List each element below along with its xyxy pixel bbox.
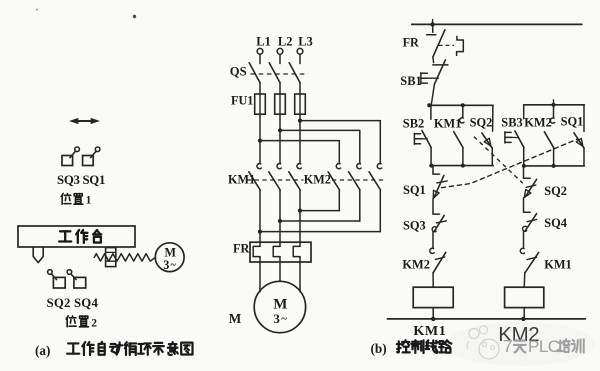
svg-text:KM2: KM2 [304, 173, 331, 187]
junction node right bus / SB3 [522, 164, 526, 168]
label SQ4 [544, 216, 567, 230]
FR trip linkage dashed line [439, 44, 454, 46]
wire KM1 pole 3 down to FR [299, 190, 301, 246]
wire fuse FU1-2 element [279, 94, 281, 114]
svg-text:SQ2: SQ2 [470, 115, 493, 129]
svg-text:FR: FR [403, 35, 419, 49]
watermark panda logo [467, 326, 499, 359]
wire KM2 pole 3 crossover to phase L1 [260, 190, 380, 232]
limit switch SQ4 (position 2) [67, 270, 86, 288]
KM1 main contacts coupling dashed line [247, 179, 304, 181]
disconnect switch QS pole 3 blade [289, 63, 300, 83]
wire L1 terminal to QS [259, 54, 261, 63]
wire L2 terminal to QS [279, 54, 281, 63]
label KM1 (interlock) [544, 258, 572, 272]
label SQ3 SQ1 [57, 173, 105, 187]
worktable box (CJK 工作台) [18, 226, 135, 247]
svg-text:KM1: KM1 [544, 258, 572, 272]
wire L3 terminal to QS [299, 54, 301, 63]
svg-text:KM1: KM1 [434, 116, 462, 130]
junction node bus / SB2 [427, 103, 431, 107]
svg-text:SQ3 SQ1: SQ3 SQ1 [57, 173, 105, 187]
wire bottom bus to SQ1 NC [432, 166, 434, 174]
scan mottle halo [445, 322, 595, 366]
wire SQ1 to SQ3 [432, 199, 434, 214]
svg-text:PLC: PLC [528, 337, 560, 356]
wire KM2 coil to bottom rail [523, 308, 525, 319]
wire KM1 pole 1 down to FR [259, 190, 261, 246]
fuse FU1-2 body [275, 94, 286, 114]
supply terminal labels L1 L2 L3 [256, 34, 312, 48]
label position-2 (CJK 位置2) [66, 316, 97, 330]
label QS [230, 65, 247, 79]
label KM1 (coil) [413, 324, 446, 339]
worktable dog pointer [33, 248, 43, 263]
wire phase L3 fuse to KM1 contact [299, 114, 301, 163]
KM1 NC interlock contact [520, 248, 538, 272]
FR heater element phase L2 [273, 246, 280, 256]
label SQ1 (left chain) [403, 183, 426, 197]
wire SQ1 to right bottom bus [583, 148, 585, 166]
svg-text:SQ1: SQ1 [403, 183, 426, 197]
contactor KM1 main contact pole 3 [289, 164, 302, 190]
junction node bus / KM1 aux [461, 103, 465, 107]
svg-text:KM2: KM2 [402, 257, 430, 271]
FR NC contact (control) [427, 24, 445, 57]
svg-text:(a): (a) [35, 343, 50, 358]
contactor KM1 main contact pole 2 [269, 164, 282, 190]
KM2 NC interlock contact [430, 248, 446, 273]
label KM2 (coil, overlay) [498, 323, 539, 346]
junction node phase L1 branch [258, 139, 262, 143]
wire SQ2 to bottom bus [491, 148, 493, 166]
limit switch SQ3 (position 1) [62, 147, 79, 166]
mechanical link dashed SQ1-SQ1 [442, 139, 578, 188]
svg-text:FU1: FU1 [231, 94, 253, 108]
wire QS pole 1 to fuse FU1-1 [259, 83, 261, 94]
svg-text:7: 7 [503, 336, 513, 356]
junction node bottom bus / SB2 [429, 164, 433, 168]
scan speck top [133, 15, 136, 18]
junction node phase L1 / KM2 pole 3 [258, 230, 262, 234]
start button SB2 (NO) [422, 105, 431, 147]
start button SB3 (NO) [515, 105, 524, 148]
junction node right bus / KM2 aux [552, 164, 556, 168]
label SB3 [501, 116, 522, 130]
KM1 auxiliary NO contact (self-hold) [454, 105, 464, 147]
junction node phase L2 branch [278, 128, 282, 132]
wire branch phase L3 to KM2 pole [300, 121, 380, 164]
KM2 main contacts coupling dashed line [332, 179, 385, 181]
svg-text:3: 3 [163, 258, 169, 272]
fuse FU1-1 body [255, 94, 266, 114]
contactor KM1 main contact pole 1 [249, 164, 261, 190]
wire KM2 pole 1 crossover to phase L3 [300, 190, 339, 211]
limit switch SQ1 NC contact (left chain) [433, 174, 447, 198]
caption (a) work auto-cycle schematic [35, 342, 193, 358]
contactor KM2 main contact pole 1 [328, 164, 341, 190]
label FU1 [231, 94, 253, 108]
watermark text 7天PLC培训 [503, 336, 584, 356]
right group feed stub [551, 100, 555, 107]
wire FR to motor phase L2 [279, 257, 281, 282]
wire phase L2 fuse to KM1 contact [279, 114, 281, 163]
label SQ3 [403, 218, 426, 232]
junction node phase L2 / KM2 pole 2 [278, 219, 282, 223]
wire KM2 interlock to KM1 coil [432, 273, 434, 287]
svg-text:SB1: SB1 [400, 74, 421, 88]
svg-text:SQ3: SQ3 [403, 218, 426, 232]
svg-text:2: 2 [91, 317, 97, 329]
caption (b) control circuit [371, 340, 452, 356]
svg-text:SQ4: SQ4 [544, 216, 567, 230]
wire SQ3 to KM2 interlock [432, 232, 434, 248]
drive motor M 3~ (left) [155, 243, 184, 272]
svg-text:SQ1: SQ1 [561, 115, 584, 129]
svg-text:SQ2 SQ4: SQ2 SQ4 [47, 296, 99, 310]
svg-text:KM1: KM1 [228, 173, 255, 187]
junction node bottom bus / KM1 aux [461, 164, 465, 168]
junction node bottom rail / KM2 coil [521, 317, 525, 321]
disconnect switch QS pole 1 blade [249, 63, 260, 83]
contactor KM2 main contact pole 3 [369, 164, 382, 190]
junction node bottom rail / KM1 coil [431, 317, 435, 321]
control top supply rail [412, 23, 582, 25]
wire FR to motor phase L1 [259, 257, 261, 292]
junction node phase L3 / KM2 pole 1 [298, 209, 302, 213]
wire fuse FU1-3 element [299, 94, 301, 114]
wire SQ4 to KM1 interlock [523, 231, 525, 248]
disconnect switch QS pole 2 blade [269, 63, 280, 83]
junction node top rail / FR contact [430, 20, 434, 27]
svg-text:FR: FR [233, 242, 249, 256]
wire KM1 coil to bottom rail [432, 308, 434, 319]
wire QS pole 3 to fuse FU1-3 [299, 83, 301, 94]
svg-text:M: M [273, 296, 287, 312]
label SB1 [400, 74, 421, 88]
wire KM2 pole 2 to phase L2 [280, 190, 360, 221]
FR heater element phase L1 [253, 246, 260, 256]
label KM2 (main) [304, 173, 331, 187]
svg-text:3: 3 [273, 311, 280, 326]
stop button SB1 (NC) [433, 60, 448, 84]
label KM1 (main) [228, 173, 255, 187]
label M (motor) [229, 311, 242, 326]
right group bottom bus [524, 165, 585, 167]
limit switch SQ2 (position 2) [48, 270, 66, 288]
svg-text:(b): (b) [371, 341, 387, 356]
svg-text:KM2: KM2 [524, 116, 552, 130]
svg-text:L2: L2 [278, 34, 293, 48]
right group top bus [524, 104, 585, 106]
svg-text:~: ~ [281, 313, 287, 325]
wire branch phase L2 to KM2 pole [280, 130, 360, 163]
limit switch SQ4 NC contact [523, 212, 537, 231]
supply terminal circle L3 [297, 48, 303, 54]
control bottom rail [387, 318, 585, 320]
label KM1 (aux) [434, 116, 462, 130]
limit switch SQ2 NC contact (right chain) [524, 178, 537, 197]
label FR (control) [403, 35, 419, 49]
svg-text:SQ2: SQ2 [544, 184, 567, 198]
label SQ1 (right group) [561, 115, 584, 129]
junction node phase L3 branch [298, 119, 302, 123]
limit switch SQ1 NO contact (right group) [574, 105, 584, 148]
left group top bus [428, 104, 493, 106]
contactor coil KM2 [505, 287, 544, 307]
label KM2 (interlock) [402, 257, 430, 271]
scan speck top-left [36, 8, 38, 10]
label FR (power) [233, 242, 249, 256]
limit switch SQ1 (position 1) [83, 147, 100, 166]
wire phase L1 fuse to KM1 contact [259, 114, 261, 163]
svg-text:M: M [229, 311, 242, 326]
lead screw zigzag to motor [94, 254, 155, 261]
wire FR to motor phase L3 [299, 257, 301, 292]
wire SB1 to left parallel group [431, 84, 434, 105]
motor M 3~ (power circuit) [254, 281, 305, 332]
wire fuse FU1-1 element [259, 94, 261, 114]
FR heater element phase L3 [293, 246, 300, 256]
double-headed motion arrow [69, 118, 100, 124]
wire KM1 pole 2 down to FR [279, 190, 281, 246]
wire QS pole 2 to fuse FU1-2 [279, 83, 281, 94]
wire SB3 to right bottom bus [523, 148, 525, 166]
svg-text:SB3: SB3 [501, 116, 522, 130]
thermal overload relay FR box [250, 242, 311, 262]
supply terminal circle L1 [257, 48, 263, 54]
SB2 pushbutton actuator [414, 133, 427, 144]
FR trip device symbol [457, 36, 464, 55]
contactor KM2 main contact pole 2 [349, 164, 362, 190]
svg-text:L1: L1 [256, 34, 271, 48]
label SB2 [403, 116, 424, 130]
svg-text:L3: L3 [298, 34, 313, 48]
wire SQ2 to SQ4 [523, 198, 525, 212]
supply terminal circle L2 [277, 48, 283, 54]
svg-text:SB2: SB2 [403, 116, 424, 130]
limit switch SQ2 NO contact (left group) [482, 105, 493, 147]
wire FR to SB1 [432, 57, 435, 63]
mechanical link dashed SQ2-SQ2 [474, 137, 523, 184]
KM2 auxiliary NO contact (self-hold) [544, 105, 554, 148]
wire KM1 interlock to KM2 coil [523, 272, 526, 287]
wire branch phase L1 to KM2 pole [260, 141, 339, 164]
label position-1 (CJK 位置1) [61, 193, 91, 206]
QS mechanical coupling dashed line [251, 73, 309, 75]
SB3 pushbutton actuator [505, 132, 519, 143]
limit switch SQ3 NC contact [432, 214, 446, 232]
SB1 pushbutton actuator [421, 73, 438, 84]
wire KM1 aux to bottom bus [462, 148, 464, 166]
label SQ2 (left group) [470, 115, 493, 129]
svg-text:1: 1 [86, 195, 92, 207]
lead-screw nut block [106, 248, 116, 267]
svg-text:KM1: KM1 [413, 324, 446, 339]
label SQ2 (right chain) [544, 184, 567, 198]
left group bottom bus [430, 165, 493, 167]
wire SB2 to bottom bus [430, 148, 432, 166]
label KM2 (aux) [524, 116, 552, 130]
svg-text:~: ~ [171, 260, 177, 271]
wire right bus to SQ2 NC [523, 166, 525, 178]
wire KM2 aux to bottom bus [553, 148, 555, 166]
svg-text:QS: QS [230, 65, 247, 79]
label SQ2 SQ4 [47, 296, 99, 310]
fuse FU1-3 body [295, 94, 306, 114]
contactor coil KM1 [413, 287, 453, 307]
